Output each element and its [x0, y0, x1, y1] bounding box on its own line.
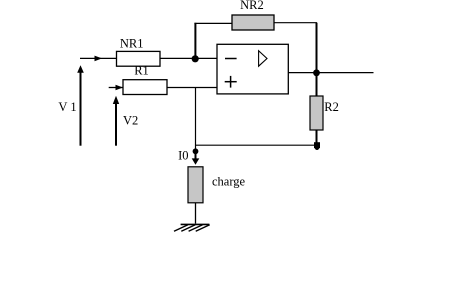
- resistor NR2: [232, 15, 274, 30]
- svg-text:V2: V2: [123, 114, 138, 128]
- wire feedback vertical: [194, 23, 196, 59]
- resistor charge: [188, 167, 203, 203]
- op-amp minus sign: [225, 58, 237, 60]
- svg-text:R2: R2: [324, 100, 339, 114]
- resistor R2: [310, 96, 323, 130]
- svg-text:charge: charge: [212, 175, 246, 189]
- svg-text:NR1: NR1: [120, 37, 144, 51]
- node I0 junction: [193, 148, 199, 154]
- node output junction: [313, 69, 320, 76]
- wire charge to ground: [195, 203, 197, 224]
- resistor R1: [123, 80, 167, 95]
- wire output: [288, 72, 373, 74]
- svg-text:R1: R1: [134, 64, 149, 78]
- ground: [174, 224, 210, 231]
- wire input V1 to NR1 with arrow: [80, 56, 117, 62]
- wire middle vertical branch: [195, 88, 197, 150]
- wire bottom horizontal: [196, 144, 317, 146]
- op-amp plus sign: [225, 76, 237, 88]
- wire feedback horizontal to NR2: [194, 22, 232, 24]
- wire right vertical feedback: [316, 23, 318, 97]
- wire R2 bottom: [316, 130, 318, 145]
- wire R1 to op-amp plus input: [167, 87, 217, 89]
- wire input V2 to R1 with arrow: [109, 85, 123, 91]
- wire NR1 to op-amp minus input: [160, 57, 217, 59]
- node R2 bottom junction: [314, 142, 320, 148]
- svg-text:NR2: NR2: [240, 0, 264, 12]
- op-amp triangle symbol: [259, 51, 267, 66]
- svg-text:I0: I0: [178, 148, 188, 162]
- svg-text:V 1: V 1: [58, 100, 76, 114]
- wire NR2 right to right vertical: [274, 22, 317, 24]
- op-amp U1 body: [217, 44, 288, 94]
- resistor NR1: [117, 51, 161, 66]
- arrow V2 voltage: [113, 96, 119, 146]
- arrow I0 current: [192, 153, 200, 165]
- node feedback junction: [192, 55, 199, 62]
- arrow V1 voltage: [77, 65, 84, 146]
